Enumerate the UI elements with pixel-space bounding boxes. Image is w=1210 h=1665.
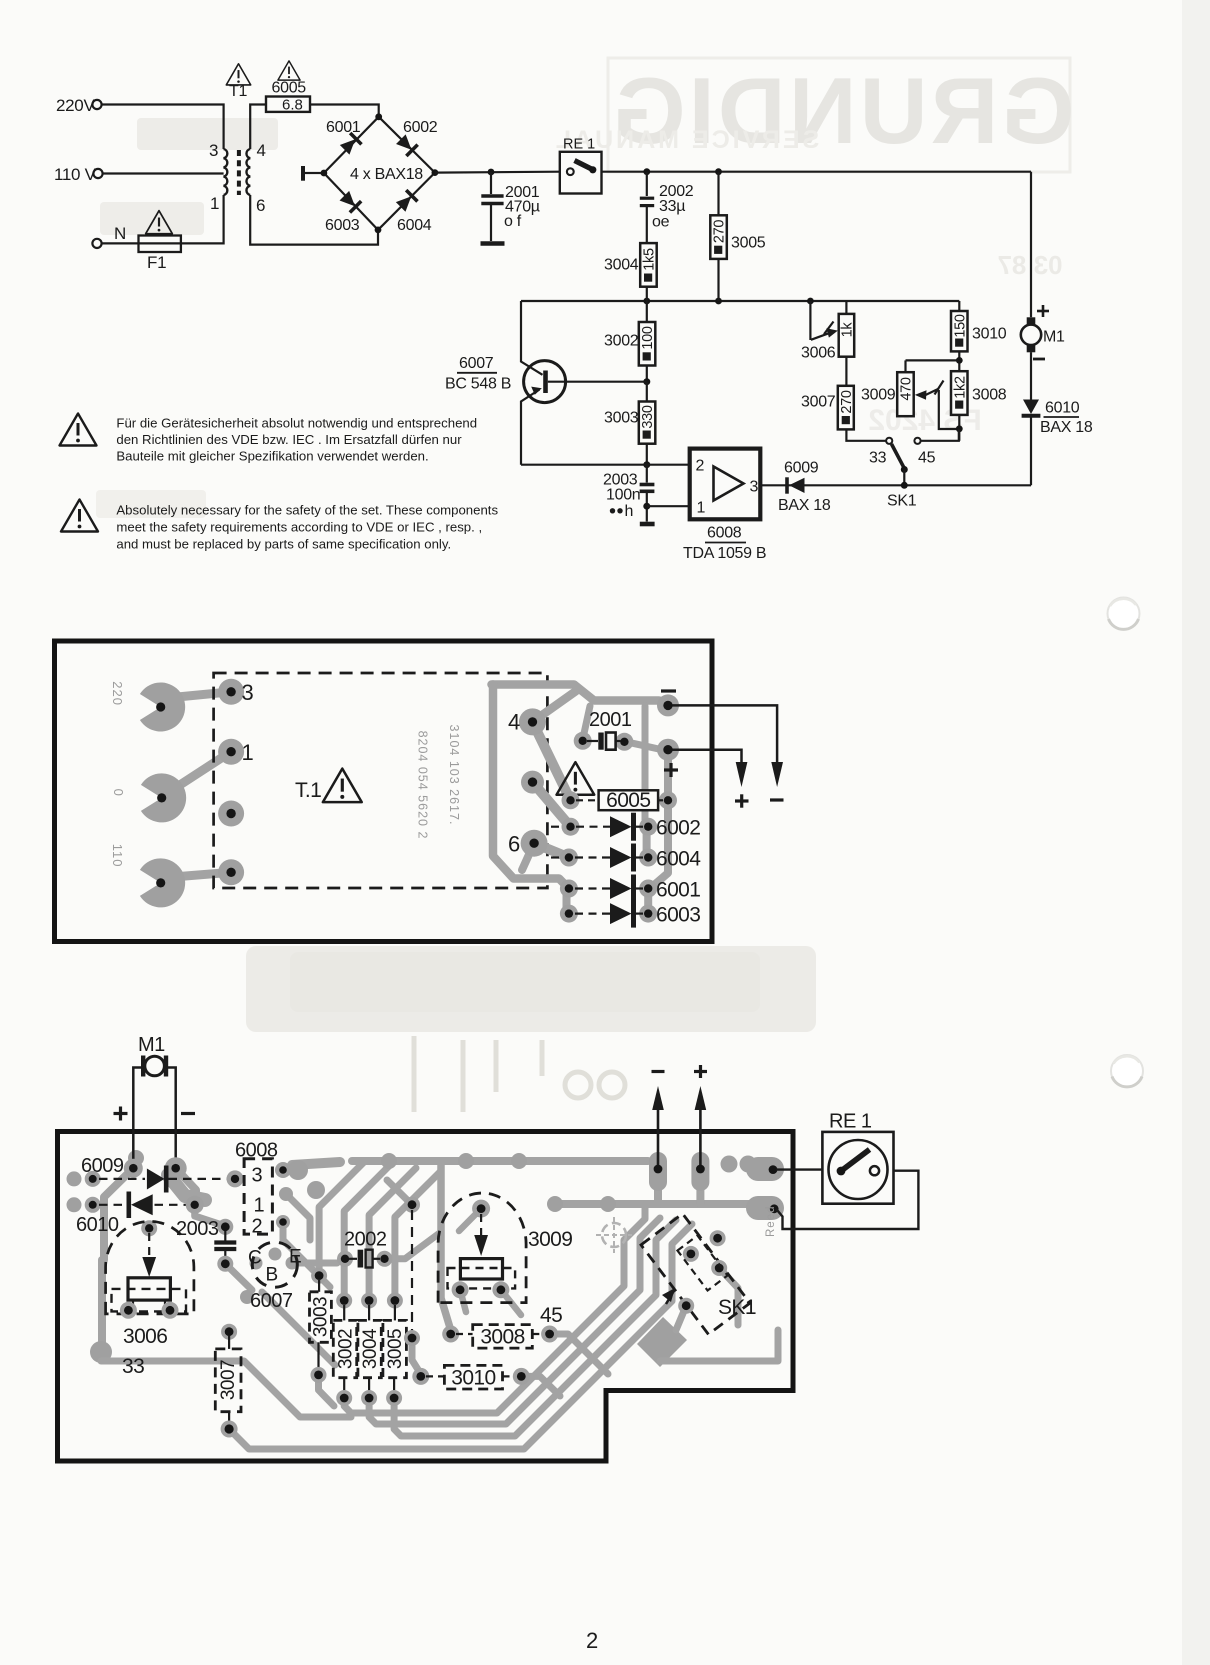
svg-text:3008: 3008: [480, 1326, 524, 1349]
copper trace 6007 area diag: [262, 1292, 335, 1365]
copper wedge below SK1: [637, 1317, 687, 1367]
copper pads top right ovals: [649, 1152, 784, 1220]
diode 6010 pcb: [76, 1192, 204, 1237]
copper chevron b: [369, 1218, 660, 1424]
svg-text:0: 0: [111, 789, 126, 797]
svg-text:330: 330: [640, 405, 656, 429]
wire RE1 loop: [776, 1171, 918, 1229]
diode 6009 BAX18: [778, 460, 831, 515]
punch hole upper: [1108, 598, 1140, 630]
copper chevron d: [229, 1224, 692, 1449]
svg-text:6001: 6001: [326, 119, 361, 136]
warning triangle 6005: [272, 61, 307, 97]
copper trace fan C: [369, 1168, 416, 1300]
svg-text:T1: T1: [229, 83, 247, 100]
mid rail: [521, 298, 959, 305]
svg-text:6004: 6004: [397, 217, 432, 234]
resistor 3007 270: [801, 357, 855, 430]
copper trace pad4 to 6005: [533, 722, 571, 800]
right rail: [1030, 172, 1032, 486]
copper trace fan A: [319, 1162, 364, 1275]
copper trace 6002r-6004r: [643, 827, 651, 858]
wire node to IC pin2: [521, 464, 690, 466]
copper trace top horizontal: [352, 1157, 648, 1165]
capacitor 2001: [481, 169, 540, 244]
svg-text:M1: M1: [1043, 329, 1065, 346]
board outline: [58, 1132, 794, 1462]
copper trace 6001-6003 left: [563, 890, 571, 915]
node collector: [643, 378, 650, 385]
resistor 3005 pcb: [383, 1293, 407, 1407]
copper trace 2002 right to 3009: [385, 1232, 442, 1259]
pads M1 wires: [124, 1157, 187, 1179]
svg-text:6005: 6005: [606, 789, 650, 812]
copper trace left loop: [493, 685, 569, 889]
svg-text:1: 1: [697, 500, 706, 517]
terminal 110V: [54, 165, 103, 184]
svg-text:3: 3: [242, 680, 254, 705]
copper SK1 pads links: [719, 1268, 738, 1325]
copper left blob: [90, 1341, 112, 1363]
svg-text:100: 100: [640, 326, 656, 350]
svg-text:110 V: 110 V: [54, 165, 97, 184]
diode 6004: [395, 190, 432, 234]
svg-text:270: 270: [839, 390, 855, 414]
svg-text:45: 45: [540, 1304, 562, 1327]
svg-text:RE 1: RE 1: [829, 1111, 872, 1133]
trimmer 3009 pcb: [438, 1193, 572, 1303]
diode 6003 pcb: [560, 900, 700, 928]
svg-text:33: 33: [869, 450, 887, 467]
pad middle: [521, 771, 544, 794]
copper chevron c: [394, 1220, 676, 1436]
trimmer 3006 1k: [801, 301, 855, 362]
svg-text:4: 4: [508, 710, 520, 735]
svg-text:B: B: [266, 1265, 279, 1286]
svg-text:o f: o f: [504, 213, 522, 230]
switch SK1: [846, 429, 958, 510]
copper trace 3009 left vertical: [441, 1163, 451, 1330]
svg-text:6007: 6007: [459, 355, 494, 372]
warning triangle german: [60, 414, 97, 446]
wire plus to arrow: [673, 750, 749, 808]
registration mark: [596, 1217, 632, 1253]
copper trace fan B: [344, 1165, 390, 1300]
copper 6010r to 2003: [195, 1205, 222, 1225]
svg-text:6003: 6003: [325, 217, 360, 234]
copper left vertical: [98, 1260, 106, 1345]
copper trace dash pad up: [387, 1180, 412, 1205]
trimmer 3009 470: [846, 301, 958, 429]
wire IC pin3 to right rail: [760, 484, 1031, 486]
motor M1: [1021, 305, 1065, 359]
svg-text:6010: 6010: [76, 1214, 119, 1236]
copper misc pads left: [67, 1150, 299, 1304]
pad 6: [508, 830, 548, 857]
copper pads on top trace: [381, 1153, 397, 1169]
pad bottom-left: [218, 859, 244, 885]
svg-text:6001: 6001: [656, 879, 700, 902]
terminal 220V: [56, 96, 102, 115]
copper trace plus pad down to 6005/6001/6003: [650, 752, 668, 889]
resistor 3002 pcb: [333, 1293, 356, 1407]
svg-text:270: 270: [712, 220, 728, 244]
capacitor 2003 pcb: [176, 1218, 236, 1272]
pad 3: [218, 679, 253, 705]
svg-text:3003: 3003: [310, 1297, 331, 1337]
svg-text:6.8: 6.8: [282, 97, 303, 114]
svg-text:3006: 3006: [801, 345, 836, 362]
transistor 6007 pcb: [248, 1242, 302, 1312]
svg-text:and must be replaced by parts: and must be replaced by parts of same sp…: [116, 537, 451, 552]
wire 110V to transformer tap: [103, 172, 224, 174]
svg-text:h: h: [625, 503, 634, 520]
copper trace 6008 pin1 diag: [286, 1194, 310, 1240]
svg-text:2002: 2002: [344, 1229, 387, 1251]
svg-text:6005: 6005: [272, 80, 307, 97]
svg-text:M1: M1: [138, 1034, 165, 1056]
solder fork 110: [140, 858, 185, 907]
svg-text:1: 1: [242, 740, 254, 765]
svg-text:SK1: SK1: [718, 1296, 756, 1319]
svg-text:oe: oe: [652, 214, 670, 231]
svg-text:3006: 3006: [123, 1325, 167, 1348]
svg-text:110: 110: [110, 844, 125, 868]
copper arrowpads to rail: [654, 1190, 662, 1204]
copper trace 6007 B to 2002: [292, 1260, 337, 1267]
wire node to IC pin1: [647, 505, 690, 507]
svg-text:E: E: [289, 1247, 302, 1268]
diode 6001 pcb: [560, 875, 700, 903]
Reed pads: [765, 1165, 779, 1237]
resistor 6005 pcb: [562, 789, 678, 812]
copper trace top to minus pad: [492, 685, 660, 701]
svg-text:4: 4: [257, 141, 266, 160]
resistor 3004 pcb: [358, 1293, 381, 1407]
copper left M1 pad down: [104, 1168, 133, 1260]
diode 6009 pcb: [81, 1155, 244, 1193]
copper bottom horizontal: [101, 1361, 351, 1417]
svg-text:3: 3: [209, 141, 218, 160]
copper 3003 bottom link: [319, 1375, 335, 1406]
svg-text:100n: 100n: [606, 487, 640, 504]
copper trace 2003 to 6007: [225, 1264, 252, 1290]
plus output pad: [657, 739, 679, 777]
resistor 6005 6.8: [266, 97, 310, 114]
diode 6002: [395, 119, 438, 156]
svg-text:8204 054 5620 2: 8204 054 5620 2: [415, 731, 429, 840]
copper trace 3009 inner: [459, 1209, 481, 1231]
svg-text:N: N: [114, 224, 126, 243]
svg-text:Reed: Reed: [765, 1206, 777, 1238]
svg-text:BAX 18: BAX 18: [778, 497, 831, 514]
svg-text:C: C: [248, 1248, 262, 1269]
node 3010/3008: [906, 357, 963, 364]
copper chevron a: [344, 1204, 645, 1413]
resistor 3002 100: [604, 301, 656, 382]
svg-text:2: 2: [586, 1628, 598, 1653]
svg-text:3007: 3007: [218, 1360, 239, 1400]
svg-text:1k: 1k: [839, 322, 855, 338]
transformer core: [237, 150, 241, 195]
svg-text:2003: 2003: [176, 1218, 219, 1240]
svg-text:1: 1: [210, 194, 219, 213]
copper trace 2001 right to plus: [627, 742, 661, 750]
minus arrow out: [652, 1072, 665, 1174]
svg-text:3008: 3008: [972, 387, 1007, 404]
trace fork110 to pad: [173, 872, 231, 877]
svg-text:T.1: T.1: [295, 779, 321, 802]
op-amp IC 6008 TDA1059B: [683, 449, 766, 562]
copper blob 6008 top: [292, 1162, 340, 1165]
resistor 3003 pcb: [310, 1268, 332, 1383]
capacitor 2002 pcb: [337, 1229, 393, 1268]
svg-text:45: 45: [918, 450, 936, 467]
fuse F1: [139, 236, 181, 273]
svg-text:3: 3: [252, 1165, 263, 1187]
switch SK1 pcb: [641, 1214, 756, 1335]
wire minus to arrow: [673, 705, 784, 800]
pad 1: [218, 739, 253, 765]
motor M1 top: [114, 1034, 196, 1168]
pad 4: [508, 708, 546, 735]
punch hole lower: [1111, 1055, 1143, 1087]
trace fork220 to pad3: [172, 692, 231, 698]
svg-text:3002: 3002: [604, 333, 639, 350]
svg-text:1: 1: [254, 1195, 265, 1217]
svg-text:6: 6: [508, 832, 520, 857]
copper trace padmid to 6002: [533, 782, 571, 827]
diode 6002 pcb: [551, 813, 700, 841]
svg-text:Absolutely necessary for the s: Absolutely necessary for the safety of t…: [116, 503, 498, 518]
svg-text:6004: 6004: [656, 848, 701, 871]
svg-text:220V: 220V: [56, 96, 95, 115]
svg-text:4 x BAX18: 4 x BAX18: [350, 166, 423, 183]
transformer outline T.1 dashed: [214, 673, 548, 888]
svg-text:6007: 6007: [250, 1290, 293, 1312]
copper trace to pad4: [533, 691, 577, 722]
svg-text:TDA 1059 B: TDA 1059 B: [683, 545, 766, 562]
svg-text:3010: 3010: [972, 326, 1007, 343]
capacitor 2003: [603, 465, 655, 524]
svg-text:den Richtlinien des VDE bzw. I: den Richtlinien des VDE bzw. IEC . Im Er…: [116, 432, 462, 447]
wire bridge to RE1: [435, 171, 560, 174]
copper trace 2001 left up: [583, 706, 590, 738]
svg-text:3010: 3010: [451, 1367, 495, 1390]
svg-text:RE 1: RE 1: [563, 137, 595, 153]
GHOST-LAYER: [96, 58, 1074, 518]
svg-text:150: 150: [952, 314, 968, 338]
transistor 6007 BC548B: [445, 301, 647, 465]
node 3008 bottom: [956, 425, 963, 432]
svg-text:3009: 3009: [528, 1228, 572, 1251]
node pin2: [643, 461, 650, 468]
resistor 3010 pcb: [412, 1365, 530, 1389]
svg-text:3004: 3004: [360, 1328, 381, 1369]
capacitor 2001 pcb: [574, 709, 634, 751]
copper trace second horizontal: [556, 1200, 770, 1208]
resistor 3003 330: [604, 382, 656, 465]
svg-text:Bauteile mit gleicher Spezifik: Bauteile mit gleicher Spezifikation verw…: [116, 449, 428, 464]
wire secondary top to resistor 6005: [250, 105, 266, 150]
relay RE1: [560, 137, 602, 194]
trimmer 3006 pcb: [106, 1220, 194, 1378]
svg-text:6002: 6002: [403, 119, 438, 136]
plus arrow out: [694, 1065, 707, 1173]
svg-text:3007: 3007: [801, 394, 836, 411]
resistor 3008 pcb: [442, 1325, 558, 1349]
warning triangle english: [61, 500, 98, 532]
svg-text:1k2: 1k2: [952, 376, 968, 399]
resistor 3010 150: [951, 301, 1007, 360]
copper trace pad6 to loop: [522, 843, 534, 870]
svg-text:3005: 3005: [731, 235, 766, 252]
svg-text:6009: 6009: [784, 460, 819, 477]
resistor 3007 pcb: [215, 1324, 241, 1438]
warning triangle T1: [226, 64, 250, 100]
copper blob 6009 right: [168, 1175, 205, 1200]
solder fork 0: [141, 773, 186, 822]
diode 6004 pcb: [551, 844, 701, 872]
svg-text:33µ: 33µ: [659, 198, 685, 215]
solder fork 220: [140, 683, 185, 732]
diode 6010 BAX18: [1022, 400, 1093, 437]
svg-text:3009: 3009: [861, 387, 896, 404]
trace fork0 to pad1: [166, 752, 231, 794]
relay RE1 pcb: [822, 1111, 893, 1204]
svg-text:BC 548 B: BC 548 B: [445, 376, 511, 393]
bridge rectifier frame: [321, 113, 439, 233]
copper trace dash pad down: [412, 1338, 421, 1374]
svg-text:3: 3: [750, 479, 759, 496]
wire pad to RE1: [776, 1168, 822, 1170]
terminal N: [92, 224, 126, 248]
svg-text:Für die Gerätesicherheit absol: Für die Gerätesicherheit absolut notwend…: [116, 416, 477, 431]
AC input terminal bar at bridge left node: [303, 166, 321, 181]
resistor 3004 1k5: [604, 243, 657, 301]
wire 6005 to bridge top: [310, 105, 379, 117]
warning triangle at F1: [146, 211, 173, 234]
board outline: [55, 641, 713, 942]
diode 6001: [326, 119, 361, 156]
top rail: [602, 168, 1032, 175]
dashed link 3009 top: [404, 1197, 420, 1346]
wire secondary bottom rail: [250, 195, 378, 245]
svg-text:6: 6: [256, 196, 265, 215]
svg-text:3004: 3004: [604, 257, 639, 274]
svg-text:SK1: SK1: [887, 493, 917, 510]
svg-text:3003: 3003: [604, 410, 639, 427]
svg-text:6003: 6003: [656, 904, 700, 927]
BG-WASH: [246, 0, 1210, 1665]
resistor 3008 1k2: [951, 360, 1007, 440]
svg-text:2: 2: [696, 458, 705, 475]
svg-text:33: 33: [122, 1355, 144, 1378]
svg-text:470: 470: [899, 377, 915, 401]
svg-text:3005: 3005: [385, 1329, 406, 1369]
svg-text:220: 220: [110, 681, 125, 706]
svg-text:2: 2: [252, 1216, 263, 1238]
diode 6003: [325, 190, 361, 234]
copper M1 right pad down: [176, 1168, 196, 1200]
svg-text:BAX 18: BAX 18: [1040, 419, 1093, 436]
label T.1 + warning: [295, 769, 362, 803]
copper trace pad6 to 6004: [534, 843, 569, 857]
svg-text:6010: 6010: [1045, 400, 1080, 417]
svg-text:6002: 6002: [656, 817, 700, 840]
wire 220V to transformer pin 3: [102, 105, 224, 150]
capacitor 2002: [640, 172, 694, 243]
svg-text:6008: 6008: [707, 525, 742, 542]
IC 6008 pcb: [235, 1140, 293, 1238]
svg-text:1k5: 1k5: [641, 248, 657, 271]
copper trace 6008 down: [283, 1222, 330, 1287]
svg-text:F1: F1: [147, 253, 166, 272]
svg-text:3002: 3002: [335, 1329, 356, 1369]
svg-text:meet the safety requirements a: meet the safety requirements according t…: [116, 520, 482, 535]
copper bottom right trace: [660, 1330, 778, 1361]
transformer T1 secondary winding: [246, 149, 250, 195]
warning triangle on pcb: [557, 762, 595, 795]
copper trace 3008 right: [550, 1334, 608, 1374]
transformer T1 primary winding: [224, 149, 228, 195]
svg-text:3104 103 2617.: 3104 103 2617.: [447, 725, 461, 826]
pad mid-left: [218, 801, 244, 827]
wire N through fuse to pin 1: [102, 195, 224, 243]
copper trace top down to 6002 right: [642, 706, 649, 820]
copper trace fan D: [395, 1171, 441, 1300]
svg-text:2001: 2001: [589, 709, 632, 731]
resistor 3005 270: [710, 172, 765, 301]
copper trace 3010 right: [521, 1376, 560, 1396]
minus output pad: [657, 691, 679, 716]
